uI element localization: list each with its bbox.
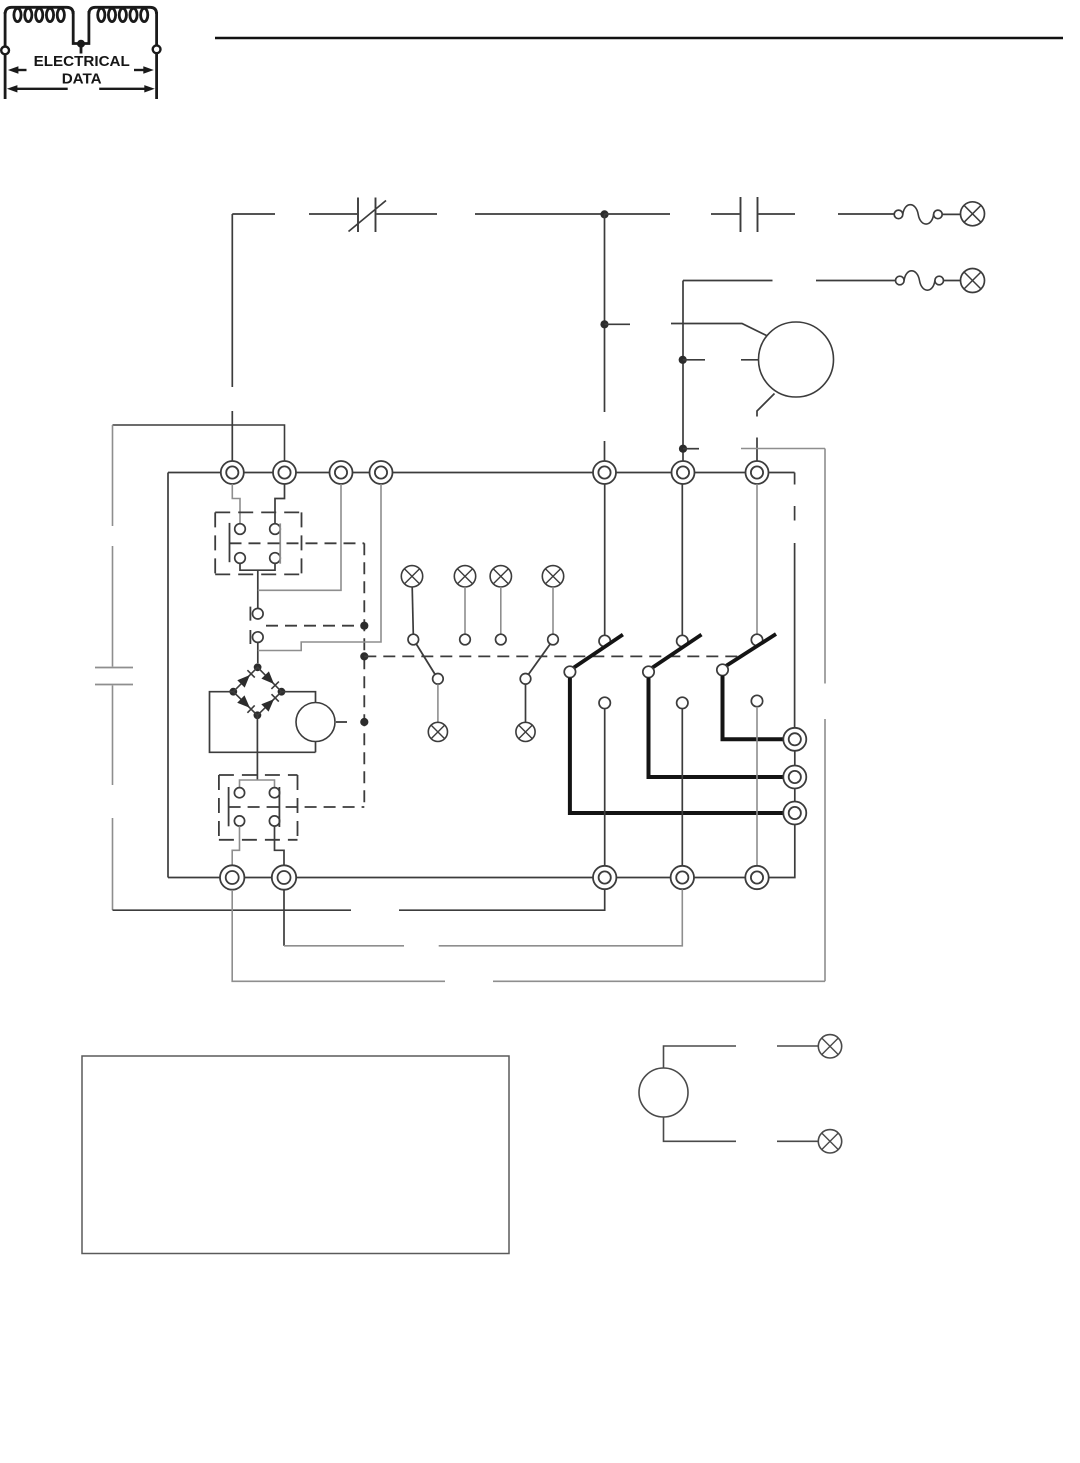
contact circle DS4: [460, 634, 471, 645]
node D junction at y449: [679, 445, 687, 453]
lamp DS8: [516, 722, 535, 741]
wire B: B2 to B4 horizontal: [284, 889, 682, 945]
node B junction on x604: [600, 320, 608, 328]
relay K2 output to bottom terminal 2: [275, 826, 285, 865]
svg-text:DATA: DATA: [62, 71, 102, 88]
relay K1 output wires: [240, 563, 275, 608]
dashed node E: [360, 622, 368, 630]
switch SW4 input circle: [677, 635, 688, 646]
wire SW1 to lamp DS7: [437, 684, 439, 722]
bottom terminal B2: [272, 865, 296, 889]
dashed node F: [360, 652, 368, 660]
relay K2 right armature bar: [278, 787, 280, 827]
relay K1 dashed enclosure: [215, 512, 301, 574]
dimension arrow row 1 right: [134, 66, 154, 73]
outer left border with capacitor C2: [95, 425, 133, 910]
relay K2 output to bottom terminal 1: [232, 826, 239, 865]
switch SW1 pole circle: [408, 634, 419, 645]
inner box bottom row wire: [168, 877, 745, 879]
terminal 1: [221, 461, 244, 484]
bridge right wire to motor M2: [282, 692, 316, 703]
bottom terminal B1: [220, 865, 244, 889]
terminal 3: [330, 461, 353, 484]
switch SW1 blade: [416, 644, 435, 675]
wire L1 top left: [232, 213, 357, 215]
switch SW3 pivot circle: [564, 666, 575, 677]
terminal R1-R2 link: [794, 751, 796, 766]
terminal 6: [672, 461, 695, 484]
wire B: B2 to B4 vertical: [283, 890, 285, 946]
switch SW4 thick wire to terminal R2: [649, 678, 784, 777]
wire y448 to right border: [741, 448, 825, 450]
wire SW2 to lamp DS8: [525, 684, 527, 722]
dimension arrow row 2 left: [7, 85, 68, 92]
wire DS3 to switch SW1: [412, 587, 413, 634]
dashed node G: [360, 718, 368, 726]
center tap node: [73, 11, 89, 54]
wire terminal2 to relay K1 coil: [275, 484, 285, 524]
dimension arrow row 2 right: [99, 85, 155, 92]
terminal 4: [370, 461, 393, 484]
wire A: B3 to outer left loop: [113, 889, 605, 910]
inner box top row wire: [168, 472, 795, 474]
motor M2 bottom wire: [315, 742, 317, 753]
legend box: [82, 1056, 509, 1254]
switch SW5 input circle: [751, 634, 762, 645]
bridge node bottom: [254, 711, 262, 719]
start contact S upper circle: [252, 608, 263, 619]
wire motor M1 top pin: [671, 324, 767, 336]
bridge left loop wire: [210, 692, 316, 753]
switch SW3 thick blade: [573, 635, 623, 669]
bottom terminal B5: [745, 866, 768, 889]
terminal R1: [783, 728, 806, 751]
bridge node left: [229, 688, 237, 696]
dashed switch bus horizontal: [364, 655, 740, 657]
terminal R2: [783, 766, 806, 789]
switch SW1 throw circle: [433, 674, 444, 685]
wire node A to C1: [605, 213, 740, 215]
wire DS4 drop: [464, 587, 466, 634]
wire G1 top to lamp DS9: [664, 1046, 819, 1068]
logo left lead with terminal: [1, 12, 9, 99]
lamp DS4: [454, 566, 475, 587]
wire terminal6 to switch SW4: [681, 484, 683, 635]
relay K2 actuator dashed line: [229, 806, 365, 808]
wire SW5 output to bottom terminal: [756, 707, 758, 866]
bridge node right: [278, 688, 286, 696]
bridge edges: [233, 667, 281, 715]
wire CB1 to node A: [377, 213, 605, 215]
switch SW5 thick blade: [725, 634, 776, 667]
indicator lamp DS2: [961, 269, 985, 293]
switch SW5 pivot circle: [717, 664, 728, 675]
svg-text:ELECTRICAL: ELECTRICAL: [34, 53, 130, 70]
circuit breaker CB1: [349, 198, 387, 233]
bridge rectifier BR1: [229, 663, 285, 719]
header rule: [215, 37, 1063, 40]
switch SW3 thick wire to terminal R3: [570, 678, 783, 813]
relay K1 pin circles: [235, 524, 281, 564]
start contact fixed bars: [249, 607, 251, 644]
diode D4 lower-right: [261, 699, 274, 712]
bottom terminal B4: [671, 866, 694, 889]
node A junction: [600, 210, 608, 218]
lamp DS9: [818, 1035, 841, 1058]
switch SW3 input circle: [599, 635, 610, 646]
wire DS5 drop: [500, 587, 502, 634]
terminal R3: [783, 802, 806, 825]
right border upper segment: [824, 449, 826, 684]
fuse F2: [896, 271, 961, 290]
dashed link motor M2: [336, 721, 352, 723]
transformer primary coil (left winding): [5, 7, 73, 21]
wire SW3 output to bottom terminal: [604, 709, 606, 866]
stub node D right: [683, 448, 699, 450]
lamp DS6: [542, 566, 563, 587]
switch SW2 pole circle: [548, 634, 559, 645]
lamp DS5: [490, 566, 511, 587]
switch SW3 output circle: [599, 697, 610, 708]
motor M2 (fuel solenoid): [296, 703, 335, 742]
terminal 5: [593, 461, 616, 484]
lamp DS3: [401, 566, 422, 587]
wire DS6 to switch SW2: [552, 587, 554, 634]
wire C: B1 to right border: [232, 890, 825, 981]
transformer secondary coil (right winding): [89, 7, 157, 21]
wire terminal R3 down to bottom row: [769, 825, 795, 878]
stub from node B toward choke motor: [605, 323, 631, 325]
outer top-left feed wire: [113, 425, 285, 461]
lamp DS7: [428, 722, 447, 741]
relay K1 actuator dashed line: [230, 542, 365, 544]
wire G1 bottom to lamp DS10: [664, 1117, 819, 1141]
wire bridge bottom to relay K2: [256, 715, 258, 780]
switch SW5 output circle: [751, 695, 762, 706]
relay K2 dashed enclosure: [219, 775, 298, 840]
dashed control bus vertical: [363, 543, 365, 806]
relay K1 left armature bar: [229, 523, 231, 562]
diode D2 upper-right: [261, 671, 274, 684]
wire terminal5 to switch SW3: [604, 484, 606, 635]
start contact dashed actuator: [266, 625, 364, 627]
indicator lamp DS1: [961, 202, 985, 226]
terminal 7: [746, 461, 769, 484]
inner box left border: [167, 473, 169, 878]
capacitor C2: [95, 668, 133, 685]
lamp DS10: [818, 1130, 841, 1153]
wire contact to bridge: [257, 642, 259, 663]
terminal R2-R3 link: [794, 789, 796, 802]
bottom terminal B3: [593, 866, 616, 889]
wire terminal7 to switch SW5: [756, 484, 758, 634]
wire motor M1 bottom pin: [757, 394, 775, 462]
switch SW2 blade: [528, 644, 550, 675]
wire node C to motor M1 left pin: [683, 359, 759, 361]
terminal 2: [273, 461, 296, 484]
wire terminal7 link down right side: [794, 473, 796, 728]
relay K1 right armature bar: [279, 523, 281, 563]
wire node A down to terminal 5: [604, 214, 606, 461]
switch SW4 pivot circle: [643, 666, 654, 677]
start contact S lower circle: [252, 632, 263, 643]
switch SW4 thick blade: [651, 635, 701, 669]
diode D3 lower-left: [237, 695, 250, 708]
right border lower segment: [824, 719, 826, 981]
switch SW4 output circle: [677, 697, 688, 708]
logo right lead with terminal: [153, 12, 161, 99]
diode D1 upper-left: [237, 675, 250, 688]
switch SW2 throw circle: [520, 674, 531, 685]
relay K2 pin circles: [234, 788, 279, 827]
bridge node top: [254, 663, 262, 671]
gray jog wire to terminal 4: [258, 484, 381, 651]
wire from L1 down to terminal 1: [231, 214, 233, 461]
wire terminal1 to relay K1 coil: [232, 484, 240, 524]
contact circle DS5: [496, 634, 507, 645]
dimension arrow row 1 left: [8, 66, 27, 73]
generator field circle G1: [639, 1068, 688, 1117]
node C junction motor feed: [679, 356, 687, 364]
motor M1 (governor/choke actuator): [759, 322, 834, 397]
wire x683 vertical down to terminal 6: [682, 281, 684, 462]
wire SW4 output to bottom terminal: [681, 709, 683, 866]
capacitor C1: [741, 197, 758, 232]
relay K2 coil feed: [240, 780, 275, 788]
wire to terminal 3: [258, 484, 341, 590]
fuse F1: [894, 205, 960, 224]
wire row2 from x683 corner to fuse F2: [683, 280, 896, 282]
relay K2 left armature bar: [228, 787, 230, 826]
switch SW5 thick wire to terminal R1: [723, 676, 784, 740]
wire C1 to fuse F1: [759, 213, 895, 215]
